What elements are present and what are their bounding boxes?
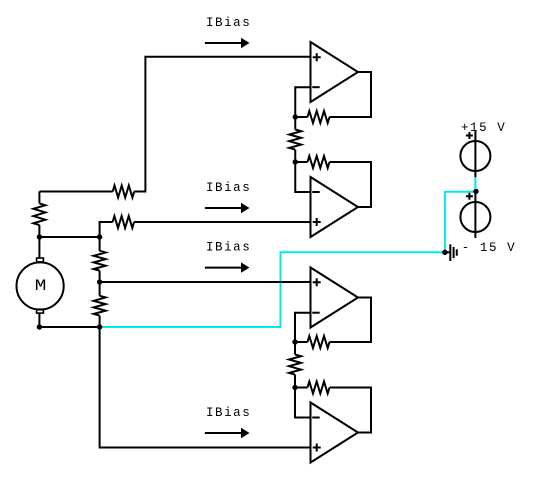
resistor R4 (divider upper)	[94, 251, 106, 271]
wire: node B2 to feedback resistor R10	[295, 387, 308, 389]
motor M	[16, 258, 63, 313]
wire: motor top junction to divider top node	[39, 236, 99, 238]
resistor R7 (U2 feedback)	[308, 156, 330, 168]
wire cyan: motor negative node to ground junction	[100, 252, 445, 327]
wire: U4 inverting input to node B2	[295, 388, 311, 418]
node dot: supply junction	[473, 189, 478, 194]
op-amp U1	[311, 42, 359, 102]
node dot A1	[293, 114, 298, 119]
op-amp U4	[311, 403, 359, 463]
wire: divider bottom node down and right to U4 noninverting input	[100, 327, 311, 448]
resistor R5 (divider lower)	[94, 296, 106, 316]
resistor R3 (horizontal, to U2 + input)	[113, 216, 135, 228]
current arrow IBias 3	[205, 262, 250, 272]
wire: R8 to node A2	[294, 150, 296, 162]
wire: divider mid node to U3 noninverting input	[100, 281, 311, 283]
wire: node A horizontal to R2	[39, 191, 112, 193]
svg-text:M: M	[35, 277, 47, 295]
wire: U1 inverting input to feedback node A1	[295, 87, 310, 117]
wire: R6 to U1 output	[330, 72, 372, 117]
wire cyan: supply midpoint junction to ground junction	[445, 177, 476, 252]
svg-text:IBias: IBias	[206, 181, 251, 195]
resistor R1 (left vertical)	[33, 203, 45, 225]
wire: R9 to U3 output	[330, 298, 372, 343]
ground	[450, 244, 457, 261]
polarity plus mark V1	[466, 132, 473, 139]
node dot B2	[292, 385, 297, 390]
resistor R11 (between B1 and B2)	[289, 355, 301, 375]
resistor R8 (between A1 and A2)	[289, 130, 301, 150]
svg-text:IBias: IBias	[206, 241, 251, 255]
voltage source V1 (+15 V)	[460, 131, 490, 177]
wire: node B1 to resistor R11	[294, 342, 296, 355]
op-amp U2	[311, 177, 359, 237]
node dot: motor bottom junction	[37, 324, 42, 329]
node dot: divider top	[97, 234, 102, 239]
resistor R6 (U1 feedback)	[308, 111, 330, 123]
resistor R10 (U4 feedback)	[308, 382, 330, 394]
wire: R3 to U2 noninverting input	[134, 221, 310, 223]
wire: U3 inverting input to feedback node B1	[295, 313, 311, 342]
wire: node A1 to feedback resistor R6	[295, 116, 307, 118]
wire: R11 to node B2	[294, 375, 296, 388]
resistor R9 (U3 feedback)	[308, 336, 330, 348]
wire: U2 inverting input to node A2	[295, 162, 310, 192]
wire: divider top to R4	[99, 237, 101, 251]
wire: ground junction stub	[445, 251, 450, 253]
op-amp U3	[311, 268, 359, 328]
voltage source V2 (-15 V)	[460, 191, 490, 238]
node dot: ground junction	[442, 250, 447, 255]
current arrow IBias 2	[205, 203, 250, 213]
node dot: motor top junction	[37, 234, 42, 239]
wire: R5 to divider bottom node	[99, 316, 101, 327]
svg-text:IBias: IBias	[206, 406, 251, 420]
svg-text:- 15 V: - 15 V	[462, 241, 516, 255]
wire: R10 to U4 output	[330, 388, 372, 433]
wire: motor - terminal down to node B	[39, 313, 99, 327]
wire: R1 to motor + terminal	[38, 225, 40, 258]
wire: divider top node jog up to R3	[100, 222, 113, 237]
polarity plus mark V2	[466, 193, 473, 200]
current arrow IBias 4	[205, 428, 250, 438]
node dot: divider bottom	[97, 324, 102, 329]
wire: R2 to U1 noninverting input (up and right)	[134, 57, 310, 192]
svg-text:+15 V: +15 V	[461, 121, 506, 135]
node dot B1	[292, 339, 297, 344]
current arrow IBias 1	[205, 38, 250, 48]
wire: node A1 to resistor R8	[294, 117, 296, 130]
node dot: divider mid	[97, 279, 102, 284]
wire: node A down to resistor R1	[38, 192, 40, 204]
svg-text:IBias: IBias	[206, 16, 251, 30]
wire: node A2 to feedback resistor R7	[295, 161, 307, 163]
node dot A2	[293, 159, 298, 164]
wire: R4 to divider mid node	[99, 271, 101, 296]
wire: node B1 to feedback resistor R9	[295, 341, 308, 343]
wire: R7 to U2 output	[330, 162, 372, 207]
resistor R2 (top left horizontal)	[113, 186, 135, 198]
